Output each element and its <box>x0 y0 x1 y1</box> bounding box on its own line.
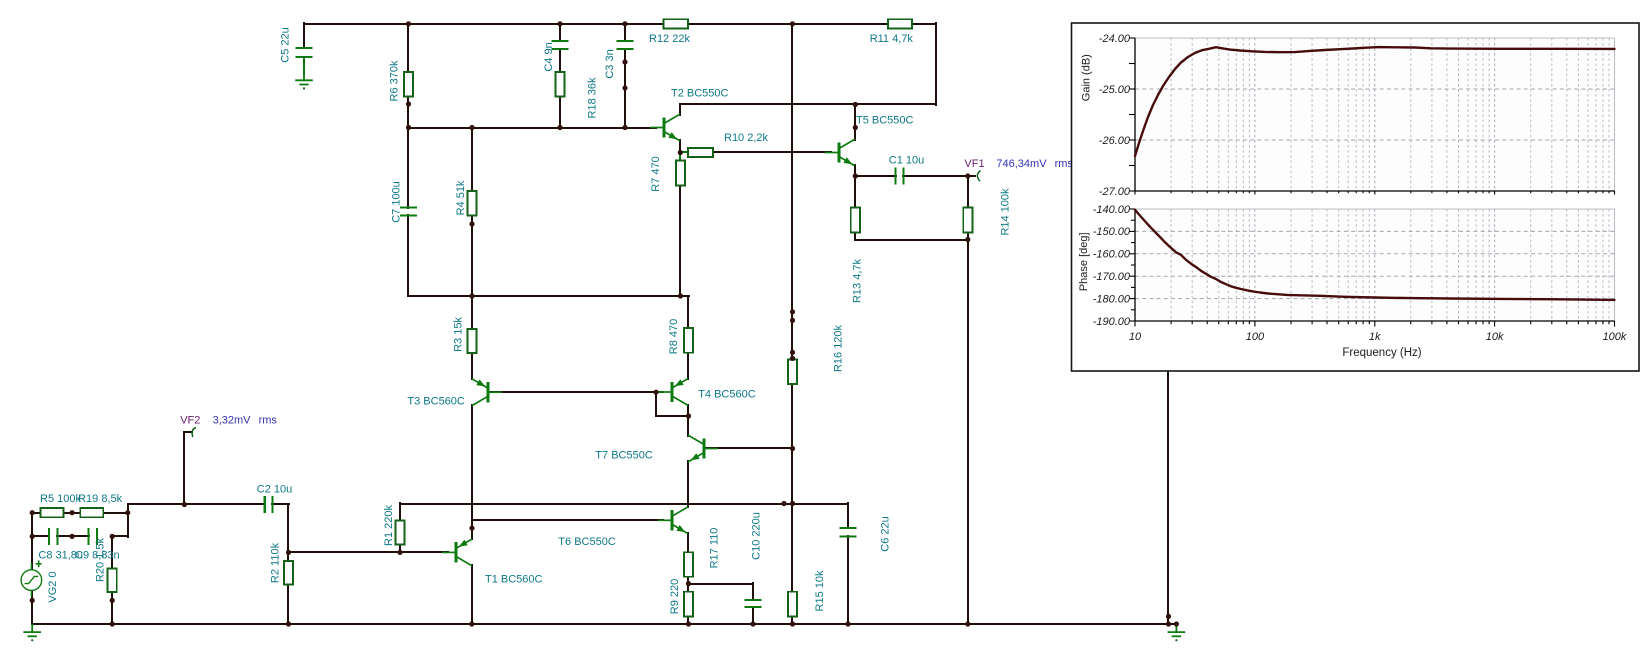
svg-text:-190.00: -190.00 <box>1093 316 1131 328</box>
junction R1 bottom input row <box>397 550 402 555</box>
wire R9 node to C10 <box>687 583 754 585</box>
junction rail center column <box>790 21 795 26</box>
svg-text:T3 BC560C: T3 BC560C <box>407 396 465 408</box>
wire R13 to R14 bottom row <box>854 239 969 241</box>
junction rail right end <box>1166 621 1171 626</box>
capacitor C7 100u <box>400 208 417 216</box>
svg-text:T4 BC560C: T4 BC560C <box>698 389 756 401</box>
transistor T4 BC560C <box>658 379 688 406</box>
junction T5 emitter C1 R13 <box>853 173 858 178</box>
wire bootstrap row <box>399 503 849 505</box>
svg-text:VF2: VF2 <box>180 415 200 427</box>
wire R2 top <box>287 551 289 562</box>
wire R7 bottom <box>679 184 681 297</box>
wire center column rail to R16 <box>791 22 793 361</box>
wire R17 to R9 node <box>687 582 689 593</box>
wire top rail right of R11 <box>911 23 937 25</box>
junction rail R6 <box>406 21 411 26</box>
gain curve <box>1135 47 1615 156</box>
wire C8 left pin <box>31 535 50 537</box>
svg-text:R15 10k: R15 10k <box>814 570 826 611</box>
wire T7 base right <box>704 447 794 449</box>
capacitor C4 9n <box>551 41 568 49</box>
wire C9 node jog right <box>111 535 129 537</box>
wire R3 top <box>471 295 473 330</box>
junction rail C3 <box>622 21 627 26</box>
junction right column pin <box>1166 614 1171 619</box>
junction rail R20 <box>110 621 115 626</box>
junction rail C10 <box>750 621 755 626</box>
wire T2 emitter down <box>679 139 681 154</box>
svg-text:100: 100 <box>1246 331 1265 343</box>
Bode plot panel background <box>1072 23 1640 371</box>
junction T3 T4 base <box>653 390 658 395</box>
svg-text:-150.00: -150.00 <box>1093 226 1131 238</box>
wire T3 collector down <box>471 404 473 529</box>
junction base row C3 <box>622 125 627 130</box>
wire T6 emitter down <box>687 532 689 554</box>
wire C5 bottom to ground <box>303 56 305 74</box>
svg-text:-24.00: -24.00 <box>1099 33 1131 45</box>
svg-text:-180.00: -180.00 <box>1093 293 1131 305</box>
capacitor C10 220u <box>744 600 761 607</box>
wire R16 to T7 base node <box>791 383 793 450</box>
wire R4 node to feedback row <box>471 223 473 297</box>
plot horizontal gridlines phase <box>1135 209 1615 321</box>
wire feedback row <box>407 295 682 297</box>
svg-text:C2 10u: C2 10u <box>257 484 292 496</box>
resistor R3 15k <box>467 329 476 353</box>
svg-text:VG2 0: VG2 0 <box>47 571 59 602</box>
source VG2 plus polarity mark <box>36 560 42 567</box>
resistor R1 220k <box>395 520 404 544</box>
junction VG2 bottom pin <box>30 598 35 603</box>
svg-text:C7 100u: C7 100u <box>391 181 403 223</box>
wire VF1 probe stub <box>966 175 976 177</box>
transistor T6 BC550C <box>658 507 688 534</box>
wire T3 base to T4 base <box>488 391 664 393</box>
wire source column <box>31 511 33 571</box>
junction T7 base center column <box>790 446 795 451</box>
wire C6 bottom <box>847 535 849 625</box>
resistor R16 120k <box>788 360 797 385</box>
resistor R10 2,2k <box>688 148 713 157</box>
wire R9 bottom <box>687 615 689 625</box>
svg-text:T6 BC550C: T6 BC550C <box>558 536 616 548</box>
junction T1 emitter node <box>469 526 474 531</box>
junction center column d <box>790 356 795 361</box>
wire C5 top to rail <box>303 22 305 49</box>
wire R8 jog <box>679 295 690 297</box>
junction R4 bottom <box>469 221 474 226</box>
svg-text:R16 120k: R16 120k <box>833 324 845 372</box>
wire collector row to R11 net <box>679 103 937 105</box>
resistor R13 4,7k <box>851 208 860 233</box>
wire T4 base jog right <box>655 415 690 417</box>
wire T4 base jog down <box>655 391 657 417</box>
wire base row T2 <box>407 127 657 129</box>
svg-text:100k: 100k <box>1603 331 1627 343</box>
svg-text:1k: 1k <box>1369 331 1381 343</box>
junction base row R4 <box>469 125 474 130</box>
junction T5 collector pin <box>853 125 858 130</box>
svg-text:R5 100k: R5 100k <box>40 493 81 505</box>
junction base row R18 <box>557 125 562 130</box>
svg-text:R19 8,5k: R19 8,5k <box>78 493 123 505</box>
wire R18 bottom <box>559 95 561 129</box>
junction C8 left <box>30 534 35 539</box>
svg-text:Phase [deg]: Phase [deg] <box>1078 232 1090 291</box>
resistor R9 220 <box>684 592 693 617</box>
resistor R18 36k <box>555 72 564 97</box>
junction R5 left <box>30 510 35 515</box>
wire C6 drop <box>847 502 849 529</box>
wire output node down to ground rail <box>967 238 969 625</box>
junction C3 pin a <box>622 59 627 64</box>
wire T7 emitter down <box>687 460 689 505</box>
resistor R2 110k <box>284 561 293 585</box>
gain axis ticks <box>1129 38 1135 191</box>
wire R11 right drop <box>935 22 937 106</box>
wire T2 collector up <box>679 103 681 116</box>
capacitor C6 22u <box>839 528 856 537</box>
phase curve <box>1135 210 1615 300</box>
resistor R8 470 <box>684 328 693 353</box>
wire C7 top <box>407 126 409 209</box>
svg-text:Gain (dB): Gain (dB) <box>1081 54 1093 101</box>
capacitor C1 10u <box>896 167 904 184</box>
wire C10 bottom <box>752 606 754 625</box>
wire C8 C9 mid node <box>56 535 90 537</box>
wire R5 left pin <box>31 512 42 514</box>
transistor T1 BC560C <box>442 539 472 566</box>
junction C3 pin b <box>622 85 627 90</box>
ground under C5 <box>295 72 313 85</box>
wire R1 top drop <box>399 502 401 522</box>
resistor R17 110 <box>684 552 693 577</box>
svg-text:VF1: VF1 <box>964 158 984 170</box>
resistor R7 470 <box>676 161 685 186</box>
wire R2 bottom <box>287 583 289 625</box>
probe VF2 hook <box>192 428 196 438</box>
svg-text:T5 BC550C: T5 BC550C <box>856 115 914 127</box>
wire top rail between R12 and R11 <box>687 23 889 25</box>
svg-text:R14 100k: R14 100k <box>1000 188 1012 236</box>
wire T4 emitter up <box>687 351 689 380</box>
wire T5 emitter down <box>854 164 856 177</box>
wire source bottom <box>31 589 33 625</box>
svg-text:R18 36k: R18 36k <box>587 77 599 118</box>
junction T4 T7 collectors <box>686 413 691 418</box>
wire R20 bottom <box>111 591 113 625</box>
source VG2 waveform generator <box>21 563 42 597</box>
resistor R11 4,7k <box>888 19 912 28</box>
resistor R14 100k <box>963 208 972 233</box>
wire R10 left pin <box>679 151 689 153</box>
ground bottom right <box>1168 624 1186 637</box>
svg-text:-170.00: -170.00 <box>1093 271 1131 283</box>
wire T6 base row <box>471 519 664 521</box>
ground bottom left <box>23 624 41 637</box>
wire VF2 probe horizontal <box>183 431 193 433</box>
wire T1 emitter up <box>471 527 473 540</box>
wire ground rail <box>31 623 1170 625</box>
svg-text:R1 220k: R1 220k <box>383 505 395 546</box>
junction R19 right <box>125 510 130 515</box>
wire C3 bottom segment b <box>624 87 626 129</box>
wire R4 bottom pin <box>471 214 473 225</box>
phase plot axes <box>1135 209 1615 321</box>
wire R13 top <box>854 175 856 209</box>
svg-text:C9 8,83n: C9 8,83n <box>75 549 120 561</box>
capacitor C2 10u <box>265 496 273 513</box>
wire T6 collector up <box>687 502 689 508</box>
svg-text:10: 10 <box>1129 331 1142 343</box>
wire R19 node up <box>127 503 129 514</box>
wire center column to R15 <box>791 502 793 593</box>
junction rail R15 <box>790 621 795 626</box>
junction R6 bottom pin <box>406 101 411 106</box>
wire C2 right stub <box>271 503 290 505</box>
svg-text:3,32mV: 3,32mV <box>213 415 252 427</box>
wire R20 top <box>111 535 113 570</box>
wire T4 collector down <box>687 404 689 417</box>
junction bootstrap stub <box>781 501 786 506</box>
wire input row R2 to T1 <box>287 551 449 553</box>
wire C7 bottom <box>407 214 409 297</box>
junction rail C6 <box>845 621 850 626</box>
wire R14 bottom <box>967 231 969 241</box>
junction C9 right <box>110 534 115 539</box>
junction R13 R14 bottom <box>965 237 970 242</box>
resistor R19 8,5k <box>80 508 103 517</box>
wire R17 bottom <box>687 575 689 585</box>
svg-text:R11 4,7k: R11 4,7k <box>870 33 914 45</box>
svg-text:-27.00: -27.00 <box>1099 186 1131 198</box>
svg-text:R12 22k: R12 22k <box>649 33 690 45</box>
wire C4 to R18 <box>559 48 561 73</box>
junction rail output <box>965 621 970 626</box>
svg-text:T1 BC560C: T1 BC560C <box>485 574 543 586</box>
junction feedback row R4 <box>469 293 474 298</box>
svg-text:C1 10u: C1 10u <box>889 155 924 167</box>
wire R19 right pin <box>102 512 129 514</box>
junction bootstrap center column <box>790 501 795 506</box>
wire C1 to VF1 node <box>902 175 969 177</box>
capacitor C9 8,83n <box>89 528 98 545</box>
svg-text:R17 110: R17 110 <box>709 528 721 569</box>
resistor R12 22k <box>664 19 689 28</box>
plot vertical gridlines <box>1171 38 1609 321</box>
resistor R5 100k <box>41 508 64 517</box>
svg-text:C10 220u: C10 220u <box>750 512 762 560</box>
wire T5 collector up b <box>854 103 856 129</box>
junction ground stub <box>1174 621 1179 626</box>
wire T3 emitter up <box>471 377 473 380</box>
svg-text:R10 2,2k: R10 2,2k <box>724 132 769 144</box>
svg-text:C3 3n: C3 3n <box>604 49 616 78</box>
wire plot panel to ground rail <box>1167 370 1169 625</box>
wire C2 right corner down <box>287 503 289 554</box>
wire R6 top <box>407 22 409 73</box>
svg-text:T2 BC550C: T2 BC550C <box>671 88 729 100</box>
junction R17 R9 C10 <box>686 581 691 586</box>
wire T5 collector up a <box>854 126 856 141</box>
junction base row C7 <box>406 125 411 130</box>
wire T7 collector up <box>687 415 689 437</box>
svg-text:R6 370k: R6 370k <box>388 60 400 101</box>
wire R10 to T5 base <box>712 151 832 153</box>
junction collector row T5 <box>853 102 858 107</box>
junction rail R9 <box>686 621 691 626</box>
svg-text:R7 470: R7 470 <box>650 156 662 191</box>
wire R8 top <box>687 295 689 329</box>
junction rail R2 <box>286 621 291 626</box>
svg-text:C5 22u: C5 22u <box>279 27 291 62</box>
junction R20 bottom pin <box>110 598 115 603</box>
svg-text:R13 4,7k: R13 4,7k <box>852 258 864 303</box>
wire top supply rail left segment <box>303 23 665 25</box>
svg-text:rms: rms <box>259 415 278 427</box>
svg-text:-26.00: -26.00 <box>1099 135 1131 147</box>
wire R1 bottom pin <box>399 543 401 554</box>
svg-text:R4 51k: R4 51k <box>455 180 467 215</box>
wire R7 top pin <box>679 151 681 162</box>
svg-text:rms: rms <box>1055 158 1074 170</box>
wire ground stub right <box>1167 623 1178 625</box>
wire C3 bottom segment a <box>624 48 626 89</box>
wire C4 top <box>559 22 561 42</box>
svg-text:-160.00: -160.00 <box>1093 249 1131 261</box>
wire R15 bottom <box>791 615 793 625</box>
junction VF1 node <box>965 173 970 178</box>
junction center column a <box>790 309 795 314</box>
svg-text:Frequency (Hz): Frequency (Hz) <box>1342 347 1421 359</box>
capacitor C5 22u <box>295 48 312 57</box>
transistor T2 BC550C <box>650 114 680 141</box>
phase axis ticks <box>1129 209 1135 321</box>
capacitor C3 3n <box>616 41 633 49</box>
wire C3 top <box>624 22 626 42</box>
wire R13 bottom <box>854 231 856 241</box>
frequency axis ticks <box>1135 191 1615 327</box>
junction feedback row R7 <box>678 293 683 298</box>
svg-text:T7 BC550C: T7 BC550C <box>595 450 653 462</box>
junction R5 R19 <box>70 510 75 515</box>
gain plot axes <box>1135 38 1615 191</box>
junction VF2 node <box>182 502 187 507</box>
svg-text:R2 110k: R2 110k <box>270 542 282 583</box>
wire VF2 node row <box>127 503 266 505</box>
transistor T3 BC560C <box>472 379 502 406</box>
wire C10 top <box>752 582 754 601</box>
svg-text:C4 9n: C4 9n <box>543 42 555 71</box>
junction center column b <box>790 318 795 323</box>
junction C8 C9 <box>70 534 75 539</box>
resistor R6 370k <box>404 72 413 97</box>
wire T1 emitter node up column <box>471 410 473 529</box>
junction R2 top input row <box>286 550 291 555</box>
wire R6 bottom to node <box>407 95 409 129</box>
wire R5 R19 mid node <box>62 512 82 514</box>
plot horizontal gridlines gain <box>1135 38 1615 191</box>
svg-text:R3 15k: R3 15k <box>453 317 465 352</box>
resistor R20 1,5k <box>108 569 117 593</box>
capacitor C8 31,8u <box>49 528 58 545</box>
junction center column c <box>790 350 795 355</box>
junction rail C4 <box>557 21 562 26</box>
transistor T7 BC550C <box>688 435 718 462</box>
wire VF2 probe vertical <box>183 431 185 506</box>
wire T7 base node down <box>791 447 793 505</box>
resistor R15 10k <box>788 592 797 617</box>
svg-text:R8 470: R8 470 <box>668 319 680 354</box>
wire T1 collector down <box>471 564 473 625</box>
wire R14 top <box>967 175 969 209</box>
probe VF1 hook <box>977 171 980 182</box>
wire R4 top <box>471 126 473 192</box>
wire R3 bottom <box>471 352 473 380</box>
wire T5 emitter to C1 <box>854 175 897 177</box>
plot areas background <box>1135 38 1615 191</box>
svg-text:-140.00: -140.00 <box>1093 204 1131 216</box>
transistor T5 BC550C <box>825 139 855 166</box>
svg-text:10k: 10k <box>1486 331 1504 343</box>
svg-text:746,34mV: 746,34mV <box>996 158 1047 170</box>
svg-text:-25.00: -25.00 <box>1099 84 1131 96</box>
resistor R4 51k <box>467 191 476 216</box>
junction rail T1 <box>469 621 474 626</box>
svg-text:C6 22u: C6 22u <box>879 516 891 551</box>
wire C9 node jog up <box>127 511 129 538</box>
junction T2 emitter R7 R10 <box>678 150 683 155</box>
svg-text:R9 220: R9 220 <box>669 579 681 614</box>
